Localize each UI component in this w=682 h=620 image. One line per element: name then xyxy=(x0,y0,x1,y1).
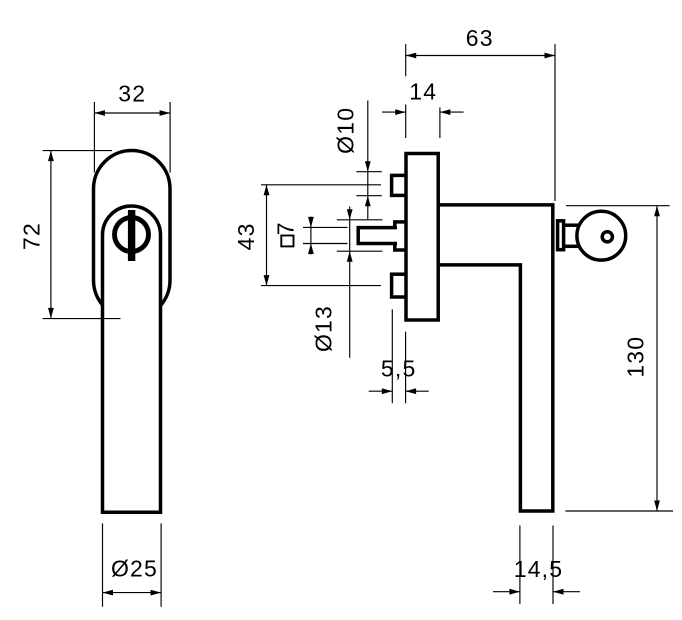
dim 72: dimension line xyxy=(50,151,52,319)
dim 32: arrowheads xyxy=(94,110,170,116)
svg-text:5,5: 5,5 xyxy=(381,356,417,382)
dim 72: arrowheads xyxy=(48,151,54,319)
dim Ø10: arrowheads xyxy=(365,161,371,206)
side view: top boss (Ø10) xyxy=(392,175,407,195)
svg-text:72: 72 xyxy=(19,222,45,250)
dim 63: arrowheads xyxy=(406,53,555,59)
dim 32: extension lines xyxy=(94,102,170,173)
svg-text:32: 32 xyxy=(118,81,146,107)
dim Ø25: dimension line xyxy=(103,592,162,594)
dim Ø25: extension lines xyxy=(103,523,162,606)
dim 43: arrowheads xyxy=(264,185,270,286)
side view: key bow xyxy=(577,211,626,260)
dim Ø13: ticks and leader line xyxy=(337,207,383,358)
side view: rosette plate xyxy=(406,154,438,321)
side view: cylinder end cap xyxy=(558,221,564,250)
front view: lock cylinder ring xyxy=(115,218,149,252)
svg-text:Ø13: Ø13 xyxy=(311,305,337,352)
svg-text:Ø25: Ø25 xyxy=(111,555,158,581)
dim Ø10: leader line and ticks xyxy=(356,101,381,220)
dim 130: arrowheads xyxy=(654,206,660,511)
dim 14: extension lines xyxy=(406,105,440,139)
front view: handle grip outline xyxy=(103,206,161,512)
svg-text:130: 130 xyxy=(623,336,649,378)
dim 14,5: extension lines xyxy=(520,526,553,605)
dim square7: ticks and leaders xyxy=(303,217,348,255)
dim 43: dimension line xyxy=(266,185,268,286)
dim square7: arrowheads xyxy=(308,217,314,254)
dim 32: dimension line xyxy=(94,112,170,114)
dim 14: dimension line tails xyxy=(382,111,464,113)
side view: key neck xyxy=(561,225,582,246)
label square 7 xyxy=(273,221,299,246)
side view: middle boss (Ø13) xyxy=(395,222,407,250)
label 14 xyxy=(409,78,437,104)
label 130 xyxy=(623,336,649,378)
dim 130: dimension line xyxy=(656,206,658,511)
svg-text:Ø10: Ø10 xyxy=(333,107,359,154)
label 14,5 xyxy=(514,556,564,582)
label Ø25 xyxy=(111,555,158,581)
dim 14: arrowheads xyxy=(395,109,450,115)
dim 5,5: arrowheads xyxy=(382,388,416,394)
dim Ø25: arrowheads xyxy=(103,590,162,596)
label 5,5 xyxy=(381,356,417,382)
svg-text:14,5: 14,5 xyxy=(514,556,564,582)
dim 72: extension lines xyxy=(43,151,121,319)
side view: handle L-shaped body xyxy=(437,205,553,511)
svg-text:14: 14 xyxy=(409,78,437,104)
dim 63: dimension line xyxy=(406,55,555,57)
dim Ø13: arrowheads xyxy=(347,209,353,261)
dim 130: extension lines xyxy=(565,206,673,511)
side view: key bow hole xyxy=(602,232,612,242)
dim 43: extension lines xyxy=(261,185,381,286)
dim 5,5: extension lines xyxy=(392,309,405,403)
side view: square spindle (7mm) xyxy=(358,228,397,244)
label Ø10 xyxy=(333,107,359,154)
label 72 xyxy=(19,222,45,250)
side view: bottom boss xyxy=(392,274,407,297)
label 43 xyxy=(233,222,259,250)
dim 14,5: dimension line tails xyxy=(493,591,580,593)
svg-text:43: 43 xyxy=(233,222,259,250)
dim 5,5: dimension line tails xyxy=(369,390,429,392)
dim 14,5: arrowheads xyxy=(509,589,563,595)
label 32 xyxy=(118,81,146,107)
label Ø13 xyxy=(311,305,337,352)
svg-text:63: 63 xyxy=(466,25,494,51)
dim 63: extension lines xyxy=(406,44,555,201)
front view: rosette plate outline (stadium) xyxy=(94,151,171,319)
svg-text:7: 7 xyxy=(273,221,299,235)
front view: key slot bar xyxy=(128,210,135,261)
label 63 xyxy=(466,25,494,51)
